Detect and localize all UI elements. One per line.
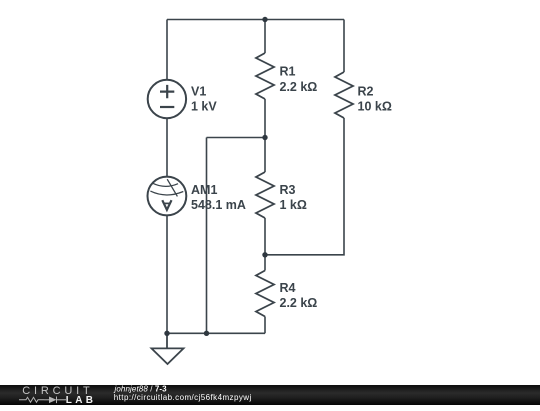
wire top rail to R1 [264,20,266,54]
wire R1 to node B [264,99,266,138]
node junction ground-left [164,331,169,336]
svg-text:R3: R3 [280,183,296,197]
svg-text:2.2 kΩ: 2.2 kΩ [280,80,318,94]
wire bottom rail [167,332,265,334]
svg-text:548.1 mA: 548.1 mA [191,198,246,212]
svg-text:2.2 kΩ: 2.2 kΩ [280,296,318,310]
resistor R4 [256,271,274,317]
wire middle branch vertical [206,138,208,334]
ammeter AM1 [148,177,187,216]
ammeter A letter (flipped) [162,200,171,210]
wire top rail down to R2 [343,20,345,73]
logo resistor-diode art [19,396,66,403]
voltage source V1 [148,80,186,118]
wire R3 to node C [264,218,266,255]
wire V1 to AM1 [166,118,168,177]
svg-text:http://circuitlab.com/cj56fk4m: http://circuitlab.com/cj56fk4mzpywj [114,393,252,402]
svg-text:R4: R4 [280,281,296,295]
svg-text:10 kΩ: 10 kΩ [358,100,392,114]
node junction B [262,135,267,140]
wire node C to R2 bottom [265,118,344,255]
labels [191,65,392,311]
node junction ground-mid [204,331,209,336]
wire node C to R4 [264,255,266,271]
resistor R3 [256,172,274,218]
svg-text:V1: V1 [191,85,206,99]
resistor R2 [335,72,353,118]
wire AM1 to bottom rail [166,216,168,334]
svg-text:1 kV: 1 kV [191,99,217,113]
node junction C [262,252,267,257]
wire top rail from left branch to R2 branch [167,19,344,21]
svg-text:R2: R2 [358,85,374,99]
footer bar [0,385,540,406]
resistor R1 [256,53,274,99]
ground [152,333,184,364]
wire R4 bottom to bottom rail [264,317,266,334]
node junction top [262,17,267,22]
svg-text:R1: R1 [280,65,296,79]
svg-text:1 kΩ: 1 kΩ [280,198,307,212]
svg-text:LAB: LAB [66,394,96,405]
wire left branch upper (top rail to V1) [166,20,168,81]
wire middle branch horizontal to node B [207,137,266,139]
wire node B to R3 [264,138,266,173]
svg-text:AM1: AM1 [191,183,217,197]
